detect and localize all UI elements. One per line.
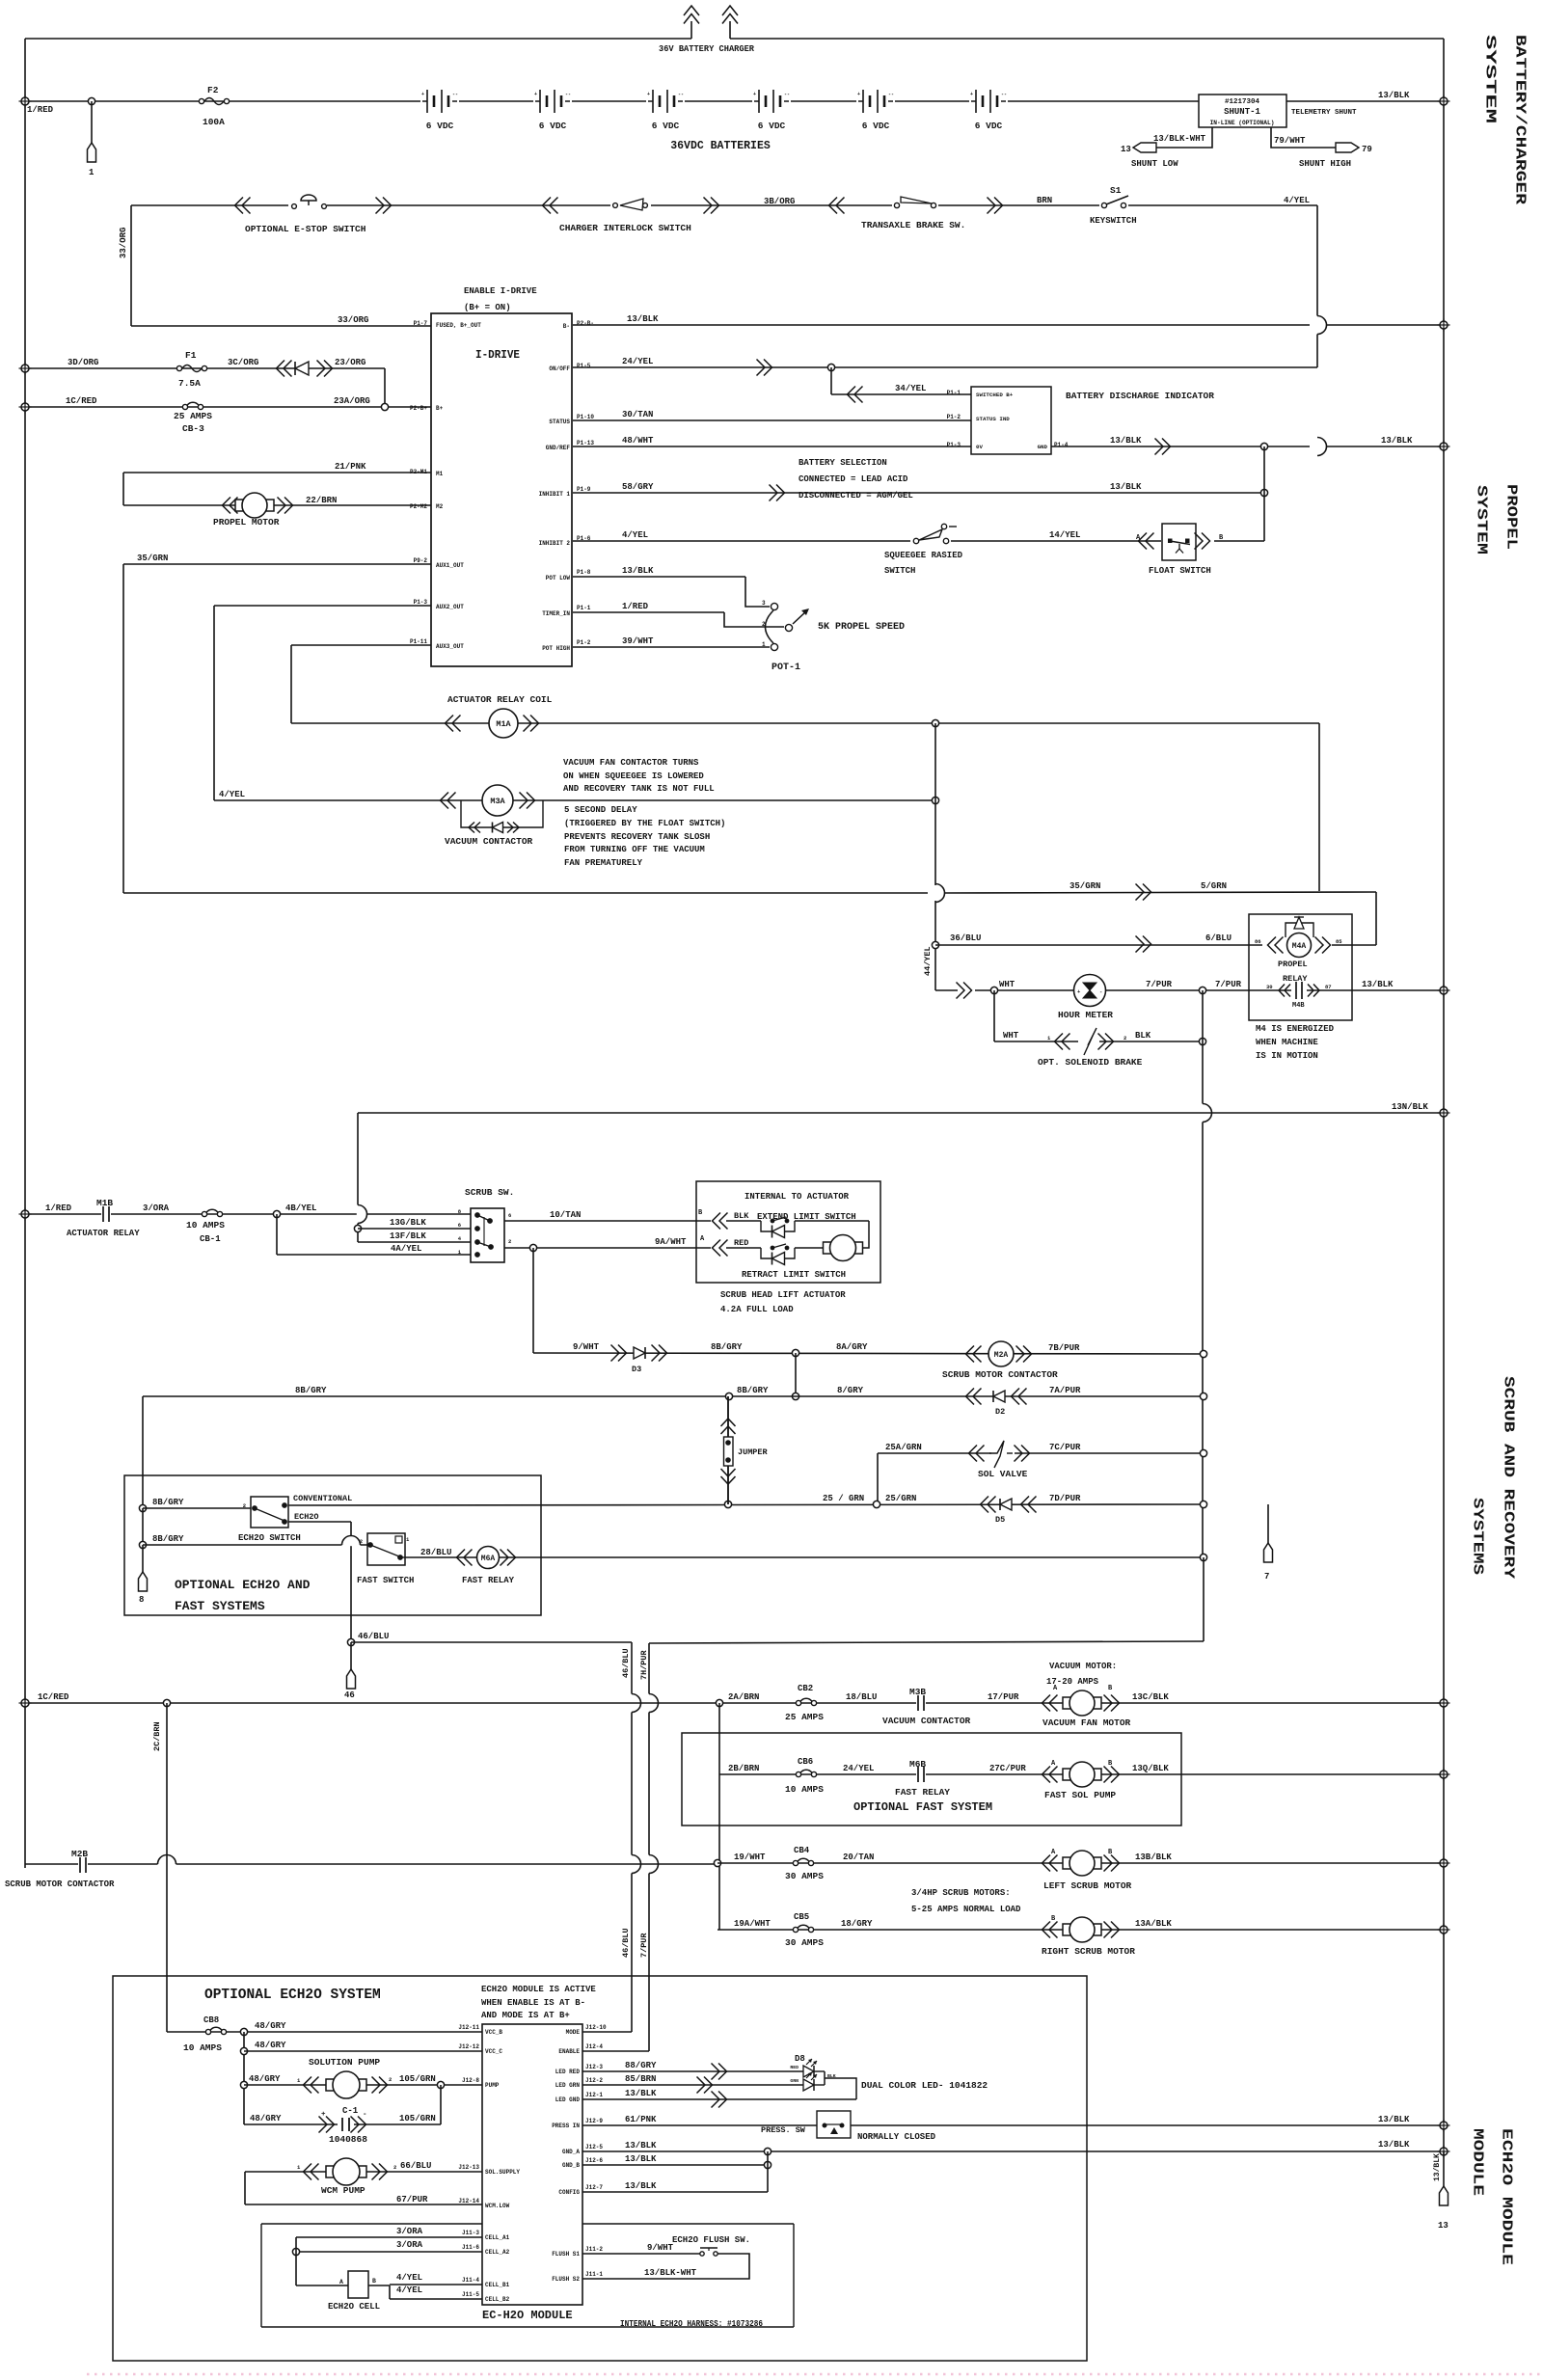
svg-text:GND/REF: GND/REF	[546, 445, 571, 451]
svg-text:--: --	[452, 92, 458, 97]
svg-text:VACUUM CONTACTOR: VACUUM CONTACTOR	[445, 836, 533, 847]
svg-text:13G/BLK: 13G/BLK	[390, 1218, 426, 1228]
svg-text:SOL VALVE: SOL VALVE	[978, 1469, 1028, 1479]
svg-text:10 AMPS: 10 AMPS	[785, 1784, 824, 1795]
svg-text:BATTERY SELECTION: BATTERY SELECTION	[799, 458, 887, 468]
svg-text:25 AMPS: 25 AMPS	[785, 1712, 824, 1722]
svg-text:SCRUB MOTOR CONTACTOR: SCRUB MOTOR CONTACTOR	[5, 1880, 115, 1889]
svg-text:SYSTEM: SYSTEM	[1482, 35, 1499, 123]
svg-text:J12-4: J12-4	[585, 2043, 603, 2050]
svg-text:PROPEL: PROPEL	[1503, 484, 1520, 550]
svg-text:CB2: CB2	[798, 1684, 813, 1693]
svg-text:SHUNT-1: SHUNT-1	[1224, 107, 1260, 117]
svg-text:VCC_B: VCC_B	[485, 2029, 502, 2036]
svg-text:J11-2: J11-2	[585, 2246, 603, 2253]
svg-text:0V: 0V	[976, 444, 983, 450]
svg-text:PRESS IN: PRESS IN	[552, 2123, 580, 2129]
svg-text:79: 79	[1362, 145, 1372, 154]
svg-text:33/ORG: 33/ORG	[338, 315, 368, 325]
svg-text:LED GRN: LED GRN	[555, 2082, 581, 2089]
svg-text:7: 7	[1264, 1572, 1269, 1582]
svg-text:+: +	[857, 92, 860, 97]
svg-text:ACTUATOR RELAY: ACTUATOR RELAY	[67, 1229, 140, 1238]
svg-text:IN-LINE (OPTIONAL): IN-LINE (OPTIONAL)	[1210, 120, 1275, 126]
svg-text:(B+ = ON): (B+ = ON)	[464, 303, 511, 312]
svg-text:3: 3	[762, 600, 766, 607]
svg-text:36V BATTERY CHARGER: 36V BATTERY CHARGER	[659, 43, 754, 54]
svg-text:M1: M1	[436, 471, 444, 477]
svg-text:P1-13: P1-13	[577, 440, 594, 446]
svg-text:1/RED: 1/RED	[622, 602, 649, 611]
svg-text:CB-3: CB-3	[182, 423, 204, 434]
svg-text:85/BRN: 85/BRN	[625, 2074, 656, 2084]
svg-text:25 / GRN: 25 / GRN	[823, 1494, 864, 1503]
svg-text:13/BLK: 13/BLK	[1433, 2153, 1442, 2181]
svg-text:TRANSAXLE BRAKE SW.: TRANSAXLE BRAKE SW.	[861, 220, 965, 230]
svg-text:9/WHT: 9/WHT	[573, 1342, 600, 1352]
svg-text:INTERNAL ECH2O HARNESS: #10732: INTERNAL ECH2O HARNESS: #1073286	[620, 2319, 763, 2329]
svg-text:P1-5: P1-5	[577, 363, 591, 369]
svg-text:C-1: C-1	[342, 2106, 359, 2116]
svg-text:VACUUM MOTOR:: VACUUM MOTOR:	[1049, 1662, 1117, 1671]
svg-text:5 SECOND DELAY: 5 SECOND DELAY	[564, 805, 637, 815]
svg-text:SHUNT LOW: SHUNT LOW	[1131, 159, 1178, 169]
svg-text:BRN: BRN	[1037, 196, 1052, 205]
svg-text:CELL_B1: CELL_B1	[485, 2282, 510, 2288]
svg-text:4/YEL: 4/YEL	[396, 2285, 422, 2295]
svg-text:--: --	[1001, 92, 1007, 97]
svg-text:2: 2	[762, 621, 766, 628]
svg-text:CHARGER INTERLOCK SWITCH: CHARGER INTERLOCK SWITCH	[559, 223, 691, 233]
svg-text:P1-3: P1-3	[947, 442, 961, 448]
svg-text:M3B: M3B	[909, 1687, 926, 1697]
svg-text:86: 86	[1255, 938, 1261, 945]
svg-text:GND: GND	[1038, 444, 1048, 450]
svg-text:13C/BLK: 13C/BLK	[1132, 1692, 1169, 1702]
svg-text:BATTERY/CHARGER: BATTERY/CHARGER	[1512, 35, 1529, 204]
svg-text:6 VDC: 6 VDC	[975, 121, 1003, 131]
svg-text:10 AMPS: 10 AMPS	[183, 2042, 222, 2053]
svg-text:ENABLE: ENABLE	[558, 2048, 580, 2055]
svg-text:EC-H2O MODULE: EC-H2O MODULE	[482, 2309, 573, 2322]
svg-text:SQUEEGEE RASIED: SQUEEGEE RASIED	[884, 551, 963, 560]
svg-text:61/PNK: 61/PNK	[625, 2115, 657, 2124]
svg-text:3C/ORG: 3C/ORG	[228, 358, 258, 367]
svg-text:13: 13	[1121, 145, 1131, 154]
svg-text:7C/PUR: 7C/PUR	[1049, 1443, 1081, 1452]
svg-text:22/BRN: 22/BRN	[306, 496, 337, 505]
svg-text:M2: M2	[436, 503, 444, 510]
svg-text:17/PUR: 17/PUR	[988, 1692, 1019, 1702]
svg-text:13: 13	[1438, 2221, 1448, 2231]
svg-text:8B/GRY: 8B/GRY	[711, 1342, 743, 1352]
svg-text:9/WHT: 9/WHT	[647, 2243, 674, 2253]
svg-text:18/BLU: 18/BLU	[846, 1692, 877, 1702]
svg-text:IS IN MOTION: IS IN MOTION	[1256, 1051, 1318, 1061]
svg-text:4/YEL: 4/YEL	[1284, 196, 1310, 205]
svg-text:ON WHEN SQUEEGEE IS LOWERED: ON WHEN SQUEEGEE IS LOWERED	[563, 771, 704, 781]
svg-text:-: -	[1099, 988, 1102, 995]
svg-text:7H/PUR: 7H/PUR	[639, 1649, 649, 1680]
svg-text:P1-9: P1-9	[577, 486, 591, 493]
svg-text:100A: 100A	[203, 117, 225, 127]
svg-text:SCRUB SW.: SCRUB SW.	[465, 1187, 514, 1198]
svg-text:8B/GRY: 8B/GRY	[152, 1534, 184, 1544]
svg-text:ECH2O: ECH2O	[294, 1512, 319, 1522]
svg-text:SWITCH: SWITCH	[884, 566, 915, 576]
svg-text:8: 8	[139, 1595, 144, 1605]
svg-text:46: 46	[344, 1690, 355, 1700]
svg-text:35/GRN: 35/GRN	[137, 554, 168, 563]
svg-text:13/BLK: 13/BLK	[1362, 980, 1394, 989]
svg-text:J12-11: J12-11	[458, 2024, 479, 2031]
svg-text:+: +	[753, 92, 756, 97]
svg-text:P1-1: P1-1	[947, 390, 961, 396]
svg-text:13N/BLK: 13N/BLK	[1392, 1102, 1428, 1112]
svg-text:48/WHT: 48/WHT	[622, 436, 654, 446]
svg-text:BLK: BLK	[734, 1211, 749, 1221]
svg-text:D3: D3	[632, 1365, 641, 1374]
svg-text:6: 6	[458, 1222, 461, 1229]
svg-text:M2A: M2A	[994, 1351, 1009, 1360]
svg-text:J12-5: J12-5	[585, 2144, 603, 2150]
svg-text:7D/PUR: 7D/PUR	[1049, 1494, 1081, 1503]
svg-text:CONFIG: CONFIG	[558, 2189, 580, 2196]
svg-text:POT-1: POT-1	[771, 663, 800, 673]
svg-text:13B/BLK: 13B/BLK	[1135, 1853, 1172, 1862]
svg-text:M1A: M1A	[496, 719, 511, 729]
svg-text:OPTIONAL E-STOP SWITCH: OPTIONAL E-STOP SWITCH	[245, 224, 366, 234]
svg-text:5K PROPEL SPEED: 5K PROPEL SPEED	[818, 622, 905, 633]
svg-text:6 VDC: 6 VDC	[758, 121, 786, 131]
svg-text:18/GRY: 18/GRY	[841, 1919, 873, 1929]
svg-text:OPTIONAL ECH2O AND: OPTIONAL ECH2O AND	[175, 1578, 311, 1592]
svg-text:BATTERY DISCHARGE INDICATOR: BATTERY DISCHARGE INDICATOR	[1066, 391, 1214, 401]
svg-text:F1: F1	[185, 350, 197, 361]
svg-text:B+: B+	[436, 405, 444, 412]
svg-text:P2-M2: P2-M2	[410, 503, 427, 510]
svg-text:ECH2O SWITCH: ECH2O SWITCH	[238, 1533, 301, 1543]
svg-text:SCRUB MOTOR CONTACTOR: SCRUB MOTOR CONTACTOR	[942, 1369, 1058, 1380]
svg-text:P1-4: P1-4	[1054, 442, 1069, 448]
svg-text:JUMPER: JUMPER	[738, 1447, 769, 1457]
svg-text:P1-1: P1-1	[577, 605, 591, 611]
svg-text:--: --	[784, 92, 790, 97]
svg-text:7/PUR: 7/PUR	[639, 1933, 649, 1958]
svg-text:1040868: 1040868	[329, 2134, 367, 2145]
svg-text:23/ORG: 23/ORG	[335, 358, 365, 367]
svg-text:7A/PUR: 7A/PUR	[1049, 1386, 1081, 1395]
svg-text:HOUR METER: HOUR METER	[1058, 1010, 1113, 1020]
svg-text:WCM PUMP: WCM PUMP	[321, 2185, 365, 2196]
svg-text:F2: F2	[207, 85, 219, 95]
svg-text:INTERNAL TO ACTUATOR: INTERNAL TO ACTUATOR	[744, 1192, 850, 1202]
svg-text:D8: D8	[795, 2054, 805, 2064]
svg-text:13/BLK-WHT: 13/BLK-WHT	[644, 2268, 697, 2278]
svg-text:1C/RED: 1C/RED	[66, 396, 97, 406]
svg-text:+: +	[534, 92, 537, 97]
svg-text:J12-10: J12-10	[585, 2024, 607, 2031]
svg-text:STATUS: STATUS	[549, 419, 570, 425]
svg-text:8A/GRY: 8A/GRY	[836, 1342, 868, 1352]
svg-text:P1-8: P1-8	[577, 569, 591, 576]
svg-text:67/PUR: 67/PUR	[396, 2195, 428, 2204]
svg-text:ENABLE I-DRIVE: ENABLE I-DRIVE	[464, 286, 537, 296]
svg-text:13F/BLK: 13F/BLK	[390, 1231, 426, 1241]
svg-text:35/GRN: 35/GRN	[1069, 881, 1100, 891]
svg-text:J11-4: J11-4	[462, 2277, 479, 2284]
svg-text:P1-10: P1-10	[577, 414, 594, 420]
svg-text:TELEMETRY SHUNT: TELEMETRY SHUNT	[1291, 109, 1357, 117]
svg-text:RIGHT SCRUB MOTOR: RIGHT SCRUB MOTOR	[1042, 1946, 1135, 1957]
svg-text:105/GRN: 105/GRN	[399, 2074, 436, 2084]
svg-text:48/GRY: 48/GRY	[255, 2041, 286, 2050]
svg-text:ECH2O MODULE: ECH2O MODULE	[1499, 2128, 1515, 2265]
svg-text:+: +	[421, 92, 424, 97]
svg-text:13A/BLK: 13A/BLK	[1135, 1919, 1172, 1929]
svg-text:--: --	[678, 92, 684, 97]
svg-text:58/GRY: 58/GRY	[622, 482, 654, 492]
svg-text:GND_A: GND_A	[562, 2149, 580, 2155]
svg-text:P9-2: P9-2	[414, 557, 428, 564]
svg-text:25 AMPS: 25 AMPS	[174, 411, 212, 421]
svg-text:66/BLU: 66/BLU	[400, 2161, 431, 2171]
svg-text:MODE: MODE	[566, 2029, 581, 2036]
svg-text:CB5: CB5	[794, 1912, 809, 1922]
svg-text:20/TAN: 20/TAN	[843, 1853, 874, 1862]
svg-text:1: 1	[762, 641, 766, 648]
svg-text:8B/GRY: 8B/GRY	[152, 1498, 184, 1507]
svg-text:WHT: WHT	[999, 980, 1015, 989]
svg-text:SYSTEMS: SYSTEMS	[1470, 1498, 1486, 1575]
svg-text:P2-B-: P2-B-	[577, 320, 594, 327]
svg-text:10 AMPS: 10 AMPS	[186, 1220, 225, 1231]
svg-text:13/BLK: 13/BLK	[1378, 2115, 1410, 2124]
svg-text:4A/YEL: 4A/YEL	[391, 1244, 421, 1254]
svg-text:30 AMPS: 30 AMPS	[785, 1871, 824, 1881]
svg-text:ECH2O CELL: ECH2O CELL	[328, 2302, 380, 2312]
svg-text:SOLUTION PUMP: SOLUTION PUMP	[309, 2057, 380, 2068]
svg-text:CB-1: CB-1	[200, 1234, 221, 1244]
svg-text:2: 2	[360, 1538, 363, 1545]
svg-text:J12-7: J12-7	[585, 2184, 603, 2191]
svg-text:M6B: M6B	[909, 1759, 926, 1770]
svg-text:34/YEL: 34/YEL	[895, 384, 926, 393]
svg-text:RED: RED	[790, 2065, 799, 2070]
svg-text:3D/ORG: 3D/ORG	[68, 358, 98, 367]
svg-text:D2: D2	[995, 1407, 1005, 1417]
svg-text:FUSED, B+_OUT: FUSED, B+_OUT	[436, 322, 481, 329]
svg-text:1C/RED: 1C/RED	[38, 1692, 69, 1702]
svg-text:6/BLU: 6/BLU	[1205, 933, 1232, 943]
svg-text:13/BLK: 13/BLK	[625, 2181, 657, 2191]
svg-text:SYSTEM: SYSTEM	[1474, 485, 1490, 554]
svg-text:+: +	[970, 92, 973, 97]
svg-text:1: 1	[89, 168, 95, 177]
svg-text:OPTIONAL FAST SYSTEM: OPTIONAL FAST SYSTEM	[853, 1800, 992, 1814]
svg-text:88/GRY: 88/GRY	[625, 2061, 657, 2070]
svg-text:VACUUM FAN CONTACTOR TURNS: VACUUM FAN CONTACTOR TURNS	[563, 758, 699, 768]
svg-text:85: 85	[1336, 938, 1342, 945]
svg-text:6 VDC: 6 VDC	[862, 121, 890, 131]
svg-text:SCRUB HEAD LIFT ACTUATOR: SCRUB HEAD LIFT ACTUATOR	[720, 1290, 846, 1300]
svg-text:LED GND: LED GND	[555, 2096, 581, 2103]
svg-text:J12-13: J12-13	[458, 2164, 479, 2171]
svg-text:AUX2_OUT: AUX2_OUT	[436, 604, 464, 610]
svg-text:2B/BRN: 2B/BRN	[728, 1764, 759, 1773]
svg-text:3/ORA: 3/ORA	[143, 1204, 170, 1213]
svg-text:7/PUR: 7/PUR	[1215, 980, 1242, 989]
svg-text:6: 6	[508, 1212, 511, 1219]
svg-text:FAST RELAY: FAST RELAY	[462, 1576, 515, 1585]
svg-text:2: 2	[508, 1238, 511, 1245]
svg-text:WHEN MACHINE: WHEN MACHINE	[1256, 1038, 1318, 1047]
svg-text:ACTUATOR RELAY COIL: ACTUATOR RELAY COIL	[447, 694, 553, 705]
svg-text:J12-12: J12-12	[458, 2043, 479, 2050]
svg-text:INHIBIT 1: INHIBIT 1	[539, 491, 571, 498]
svg-text:14/YEL: 14/YEL	[1049, 530, 1080, 540]
svg-text:87: 87	[1325, 984, 1332, 990]
svg-text:J12-2: J12-2	[585, 2077, 603, 2084]
svg-text:13/BLK: 13/BLK	[625, 2089, 657, 2098]
svg-text:-: -	[363, 2111, 367, 2119]
svg-text:33/ORG: 33/ORG	[119, 228, 128, 258]
svg-text:PROPEL MOTOR: PROPEL MOTOR	[213, 517, 280, 527]
svg-text:36/BLU: 36/BLU	[950, 933, 981, 943]
svg-text:CONNECTED = LEAD ACID: CONNECTED = LEAD ACID	[799, 474, 908, 484]
svg-text:P1-3: P1-3	[414, 599, 428, 606]
svg-text:NORMALLY CLOSED: NORMALLY CLOSED	[857, 2132, 936, 2142]
svg-text:J12-8: J12-8	[462, 2077, 479, 2084]
svg-text:VCC_C: VCC_C	[485, 2048, 502, 2055]
svg-text:48/GRY: 48/GRY	[255, 2021, 286, 2031]
svg-text:44/YEL: 44/YEL	[923, 946, 933, 976]
svg-text:13/BLK: 13/BLK	[1381, 436, 1413, 446]
svg-text:VACUUM CONTACTOR: VACUUM CONTACTOR	[882, 1716, 971, 1726]
svg-text:2A/BRN: 2A/BRN	[728, 1692, 759, 1702]
svg-text:PUMP: PUMP	[485, 2082, 500, 2089]
svg-text:FAST SWITCH: FAST SWITCH	[357, 1576, 414, 1585]
svg-text:FAST SYSTEMS: FAST SYSTEMS	[175, 1599, 265, 1613]
svg-text:LEFT SCRUB MOTOR: LEFT SCRUB MOTOR	[1043, 1880, 1132, 1891]
svg-text:13/BLK: 13/BLK	[627, 314, 659, 324]
svg-text:7/PUR: 7/PUR	[1146, 980, 1173, 989]
svg-text:7B/PUR: 7B/PUR	[1048, 1343, 1080, 1353]
svg-text:P1-2: P1-2	[577, 639, 591, 646]
svg-text:CONVENTIONAL: CONVENTIONAL	[293, 1494, 352, 1503]
svg-text:B: B	[372, 2278, 376, 2285]
svg-text:4B/YEL: 4B/YEL	[285, 1204, 316, 1213]
svg-text:B-: B-	[563, 323, 570, 330]
svg-text:13Q/BLK: 13Q/BLK	[1132, 1764, 1169, 1773]
svg-text:23A/ORG: 23A/ORG	[334, 396, 370, 406]
svg-text:79/WHT: 79/WHT	[1274, 136, 1306, 146]
svg-text:1/RED: 1/RED	[27, 105, 54, 115]
svg-text:MODULE: MODULE	[1470, 2128, 1486, 2196]
svg-text:+: +	[321, 2111, 326, 2119]
svg-text:AND MODE IS AT B+: AND MODE IS AT B+	[481, 2011, 570, 2020]
svg-text:D5: D5	[995, 1515, 1005, 1525]
svg-text:PROPEL: PROPEL	[1278, 960, 1308, 969]
svg-text:25A/GRN: 25A/GRN	[885, 1443, 922, 1452]
svg-text:GND_B: GND_B	[562, 2162, 580, 2169]
svg-text:M2B: M2B	[71, 1849, 88, 1859]
svg-text:M4A: M4A	[1292, 942, 1307, 951]
svg-text:WCM.LOW: WCM.LOW	[485, 2203, 510, 2209]
svg-text:RETRACT LIMIT SWITCH: RETRACT LIMIT SWITCH	[742, 1270, 846, 1280]
svg-text:(TRIGGERED BY THE FLOAT SWITCH: (TRIGGERED BY THE FLOAT SWITCH)	[564, 819, 725, 828]
svg-text:13/BLK-WHT: 13/BLK-WHT	[1153, 134, 1206, 144]
svg-text:105/GRN: 105/GRN	[399, 2114, 436, 2123]
svg-text:21/PNK: 21/PNK	[335, 462, 366, 472]
svg-text:CB4: CB4	[794, 1846, 810, 1855]
svg-text:PREVENTS RECOVERY TANK SLOSH: PREVENTS RECOVERY TANK SLOSH	[564, 832, 710, 842]
svg-text:FAST RELAY: FAST RELAY	[895, 1787, 950, 1798]
svg-text:AUX1_OUT: AUX1_OUT	[436, 562, 464, 569]
svg-text:3/ORA: 3/ORA	[396, 2240, 423, 2250]
svg-text:2: 2	[389, 2076, 392, 2083]
svg-text:FAST SOL PUMP: FAST SOL PUMP	[1044, 1790, 1116, 1800]
svg-text:ON/OFF: ON/OFF	[549, 365, 570, 372]
svg-text:J12-1: J12-1	[585, 2092, 603, 2098]
svg-text:24/YEL: 24/YEL	[622, 357, 653, 366]
svg-text:M1B: M1B	[96, 1198, 113, 1208]
svg-text:FAN PREMATURELY: FAN PREMATURELY	[564, 858, 643, 868]
svg-text:GRN: GRN	[790, 2078, 799, 2084]
svg-text:19/WHT: 19/WHT	[734, 1853, 766, 1862]
svg-text:48/GRY: 48/GRY	[250, 2114, 282, 2123]
svg-text:WHT: WHT	[1003, 1031, 1019, 1041]
svg-text:FLOAT SWITCH: FLOAT SWITCH	[1149, 566, 1211, 576]
svg-text:FLUSH S2: FLUSH S2	[552, 2276, 580, 2283]
svg-text:FLUSH S1: FLUSH S1	[552, 2251, 580, 2258]
svg-text:36VDC BATTERIES: 36VDC BATTERIES	[670, 140, 771, 152]
svg-text:M4B: M4B	[1292, 1002, 1305, 1010]
svg-text:J12-9: J12-9	[585, 2118, 603, 2124]
svg-text:SHUNT HIGH: SHUNT HIGH	[1299, 159, 1351, 169]
svg-text:P2-B+: P2-B+	[410, 405, 427, 412]
svg-text:2: 2	[1123, 1035, 1126, 1041]
svg-text:OPT. SOLENOID BRAKE: OPT. SOLENOID BRAKE	[1038, 1057, 1143, 1068]
svg-text:19A/WHT: 19A/WHT	[734, 1919, 771, 1929]
svg-text:J11-1: J11-1	[585, 2271, 603, 2278]
svg-text:3/4HP SCRUB MOTORS:: 3/4HP SCRUB MOTORS:	[911, 1888, 1011, 1898]
svg-text:28/BLU: 28/BLU	[420, 1548, 451, 1557]
svg-text:4.2A FULL LOAD: 4.2A FULL LOAD	[720, 1305, 794, 1314]
svg-text:M6A: M6A	[481, 1555, 496, 1563]
svg-text:J12-6: J12-6	[585, 2157, 603, 2164]
svg-text:M4 IS ENERGIZED: M4 IS ENERGIZED	[1256, 1024, 1335, 1034]
svg-text:CELL_B2: CELL_B2	[485, 2296, 510, 2303]
svg-text:P1-2: P1-2	[947, 414, 961, 420]
svg-text:13/BLK: 13/BLK	[1110, 482, 1142, 492]
svg-text:2: 2	[393, 2164, 396, 2171]
svg-text:SWITCHED B+: SWITCHED B+	[976, 392, 1014, 398]
svg-text:A: A	[339, 2279, 343, 2285]
svg-text:8B/GRY: 8B/GRY	[737, 1386, 769, 1395]
svg-text:OPTIONAL ECH2O SYSTEM: OPTIONAL ECH2O SYSTEM	[204, 1988, 381, 2003]
svg-text:3B/ORG: 3B/ORG	[764, 197, 795, 206]
svg-text:AND RECOVERY TANK IS NOT FULL: AND RECOVERY TANK IS NOT FULL	[563, 784, 715, 794]
svg-text:6 VDC: 6 VDC	[539, 121, 567, 131]
svg-text:8/GRY: 8/GRY	[837, 1386, 864, 1395]
svg-text:30 AMPS: 30 AMPS	[785, 1937, 824, 1948]
svg-text:RED: RED	[734, 1238, 748, 1248]
svg-text:1/RED: 1/RED	[45, 1204, 72, 1213]
svg-text:13/BLK: 13/BLK	[622, 566, 654, 576]
svg-text:SCRUB AND RECOVERY: SCRUB AND RECOVERY	[1501, 1376, 1517, 1579]
svg-text:M3A: M3A	[490, 797, 505, 806]
